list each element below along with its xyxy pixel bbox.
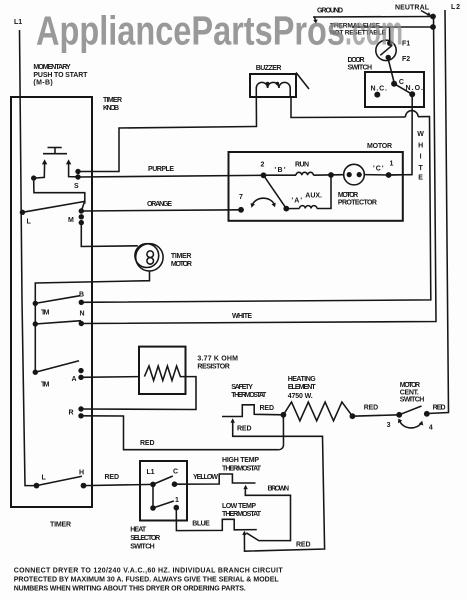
svg-text:S: S [74,183,79,190]
svg-text:(M-B): (M-B) [33,80,52,87]
svg-text:SWITCH: SWITCH [348,65,373,72]
svg-text:1: 1 [175,497,179,504]
svg-text:HIGH TEMP: HIGH TEMP [222,457,259,464]
svg-text:MOTOR: MOTOR [171,261,192,268]
svg-text:BUZZER: BUZZER [256,65,282,72]
svg-text:DOOR: DOOR [348,57,365,64]
svg-text:TM: TM [41,382,50,389]
svg-text:RED: RED [237,426,252,433]
svg-text:YELLOW: YELLOW [193,474,218,481]
svg-text:PROTECTOR: PROTECTOR [338,200,377,207]
svg-text:SELECTOR: SELECTOR [130,535,160,542]
svg-text:4750 W.: 4750 W. [288,393,313,400]
svg-text:H: H [418,143,423,150]
svg-text:MOTOR: MOTOR [367,143,392,150]
svg-text:HEAT: HEAT [130,527,147,534]
svg-text:TM: TM [41,310,50,317]
svg-text:HEATING: HEATING [288,376,317,383]
svg-text:RED: RED [140,440,155,447]
svg-text:3.77 K OHM: 3.77 K OHM [197,356,238,363]
svg-text:L2: L2 [451,4,460,11]
svg-text:RED: RED [296,542,311,549]
svg-text:1: 1 [390,161,394,168]
svg-text:N: N [80,311,85,318]
svg-text:TIMER: TIMER [50,522,71,529]
svg-text:THERMOSTAT: THERMOSTAT [222,511,262,518]
svg-text:LOW TEMP: LOW TEMP [222,503,256,510]
svg-text:'B': 'B' [275,167,286,174]
svg-text:BLUE: BLUE [192,520,210,527]
svg-text:ELEMENT: ELEMENT [288,384,317,391]
svg-text:KNOB: KNOB [103,105,119,112]
svg-text:'A': 'A' [292,198,303,205]
svg-text:NUMBERS WHEN WRITING ABOUT THI: NUMBERS WHEN WRITING ABOUT THIS DRYER OR… [14,586,246,593]
svg-text:TIMER: TIMER [171,253,192,260]
svg-text:T: T [418,165,423,172]
svg-text:SAFETY: SAFETY [231,384,253,391]
svg-text:RESISTOR: RESISTOR [197,363,229,370]
svg-text:RED: RED [433,404,446,411]
svg-text:RUN: RUN [295,162,309,169]
svg-text:L1: L1 [14,19,22,26]
svg-text:F1: F1 [402,41,410,48]
svg-text:L: L [42,475,47,482]
svg-text:I: I [420,154,422,161]
svg-text:TIMER: TIMER [103,97,122,104]
svg-text:'C': 'C' [373,166,384,173]
svg-text:RED: RED [105,474,120,481]
svg-text:ORANGE: ORANGE [147,201,172,208]
svg-text:.com: .com [345,8,403,54]
svg-text:L: L [27,218,32,225]
svg-text:CONNECT DRYER TO 120/240 V.A.C: CONNECT DRYER TO 120/240 V.A.C.,60 HZ. I… [14,567,284,574]
svg-text:PUSH TO START: PUSH TO START [33,72,88,79]
svg-text:F2: F2 [402,56,410,63]
svg-text:L1: L1 [147,469,155,476]
svg-text:B: B [79,292,84,299]
svg-text:MOMENTARY: MOMENTARY [33,64,71,71]
svg-text:THERMOSTAT: THERMOSTAT [222,465,262,472]
svg-text:RED: RED [260,405,275,412]
svg-text:H: H [79,469,84,476]
svg-text:MOTOR: MOTOR [338,192,358,199]
svg-text:BROWN: BROWN [268,486,290,493]
svg-text:E: E [418,175,423,182]
svg-text:M: M [68,217,74,224]
svg-text:C: C [399,79,404,86]
svg-text:A: A [72,376,77,383]
svg-text:AUX.: AUX. [305,193,322,200]
svg-text:MOTOR: MOTOR [400,382,420,389]
svg-text:7: 7 [239,194,243,201]
svg-text:W: W [417,131,424,138]
svg-text:R: R [69,410,74,417]
svg-text:RED: RED [364,405,379,412]
svg-text:PROTECTED BY MAXIMUM 30 A. FUS: PROTECTED BY MAXIMUM 30 A. FUSED. ALWAYS… [14,576,280,583]
svg-text:SWITCH: SWITCH [130,544,155,551]
svg-text:N.O.: N.O. [406,85,424,92]
svg-text:CENT.: CENT. [400,389,419,396]
svg-text:4: 4 [429,424,433,431]
svg-text:SWITCH: SWITCH [400,397,425,404]
svg-text:2: 2 [261,162,265,169]
svg-text:C: C [173,469,178,476]
svg-text:N.C.: N.C. [371,86,388,93]
svg-text:AppliancePartsPros: AppliancePartsPros [36,8,345,54]
svg-text:THERMOSTAT: THERMOSTAT [231,392,267,399]
svg-text:3: 3 [387,422,391,429]
svg-text:WHITE: WHITE [232,313,252,320]
svg-text:PURPLE: PURPLE [148,166,174,173]
